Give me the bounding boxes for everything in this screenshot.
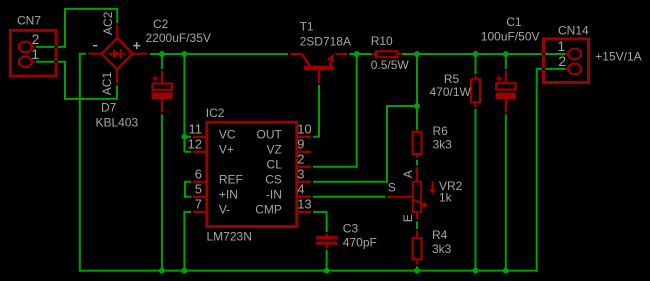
resistor R10 (372, 51, 401, 57)
svg-text:V+: V+ (219, 142, 234, 156)
svg-text:4: 4 (297, 182, 304, 197)
resistor R4 (413, 231, 422, 265)
junction V+ rail at C2 (159, 51, 165, 57)
svg-text:LM723N: LM723N (207, 230, 252, 244)
wire IC2 pin13 CMP to C3 (313, 212, 327, 232)
svg-text:6: 6 (195, 167, 202, 182)
svg-text:AC1: AC1 (100, 72, 114, 96)
transistor T1 (290, 54, 347, 83)
junction CS node at R6 (414, 103, 420, 109)
IC IC2 LM723N box (207, 122, 297, 226)
svg-text:R10: R10 (371, 34, 393, 48)
svg-text:CMP: CMP (255, 203, 282, 217)
junction V+ rail at IC2 supply (181, 51, 187, 57)
svg-text:3: 3 (297, 167, 304, 182)
svg-text:VZ: VZ (267, 142, 282, 156)
potentiometer VR2 (387, 167, 436, 219)
svg-text:13: 13 (297, 197, 311, 212)
connector CN7 (10, 30, 56, 76)
wire V+ to IC2 pins 11 and 12 (184, 54, 191, 152)
svg-text:C3: C3 (343, 221, 359, 235)
junction GND rail at C2 (159, 268, 165, 274)
wire V+ rail: R10 to CN14.1 (402, 53, 565, 55)
svg-text:C2: C2 (153, 17, 169, 31)
svg-text:IC2: IC2 (206, 106, 225, 120)
junction V+ rail at R5 (473, 51, 479, 57)
svg-text:A: A (401, 170, 415, 178)
pin 12 V+ (193, 151, 207, 153)
svg-text:+IN: +IN (219, 187, 238, 201)
capacitor C2 (152, 71, 173, 113)
wire AC2 net CN7.2 to bridge AC2 (36, 9, 117, 47)
pin 4 -IN (297, 196, 311, 198)
svg-text:REF: REF (219, 172, 243, 186)
svg-text:2: 2 (32, 31, 40, 47)
svg-text:-IN: -IN (266, 187, 282, 201)
wire R4 bottom lead to GND rail (416, 266, 418, 270)
svg-text:1k: 1k (439, 191, 453, 205)
wire AC1 net CN7.1 to bridge AC1 (36, 62, 117, 99)
junction GND rail at IC2 V- (181, 268, 187, 274)
svg-text:CN7: CN7 (17, 14, 41, 28)
wire V+ rail: T1 emitter to R10 (349, 53, 371, 55)
svg-text:E: E (401, 214, 415, 222)
pin 3 CS (297, 181, 311, 183)
resistor R6 (413, 130, 422, 158)
black overlap CN7 edge pin1 wire (55, 61, 58, 63)
svg-text:R6: R6 (433, 124, 449, 138)
svg-text:12: 12 (188, 137, 202, 152)
wire IC2 pin2 CL to T1 emitter node (313, 55, 357, 167)
wire V+ rail: bridge plus to T1 collector (150, 53, 288, 55)
svg-text:3k3: 3k3 (432, 242, 452, 256)
black overlap CN7 edge pin2 wire (55, 46, 58, 48)
wire C1 bottom lead to GND rail (505, 114, 507, 270)
wire IC2 pin7 V- to GND rail (184, 212, 191, 271)
svg-text:OUT: OUT (257, 127, 283, 141)
wire R6 top lead from V+ rail (416, 54, 418, 130)
wire C1 top lead (505, 54, 507, 69)
svg-text:1: 1 (557, 38, 565, 54)
junction GND rail at R4 (414, 268, 420, 274)
wire VR2 E to R4 (416, 221, 418, 229)
svg-text:2: 2 (297, 152, 304, 167)
svg-text:R4: R4 (432, 228, 448, 242)
junction at IC2 pin 11 (181, 134, 187, 140)
svg-text:1: 1 (31, 46, 39, 62)
junction V+ rail at R6 (414, 51, 420, 57)
svg-text:2: 2 (558, 53, 566, 69)
svg-text:T1: T1 (300, 19, 314, 33)
black overlap CN14 edge rail wire (542, 53, 545, 55)
svg-text:CS: CS (265, 172, 282, 186)
wire R5 top lead (475, 54, 477, 74)
svg-text:CL: CL (267, 157, 283, 171)
wire C2 bottom lead to GND rail (161, 114, 163, 270)
svg-text:AC2: AC2 (101, 11, 115, 35)
capacitor C1 (496, 71, 516, 113)
wire IC2 pin10 OUT to T1 base (313, 85, 319, 137)
svg-text:2SD718A: 2SD718A (300, 35, 351, 49)
svg-text:KBL403: KBL403 (96, 116, 139, 130)
svg-text:3k3: 3k3 (433, 138, 453, 152)
svg-text:10: 10 (297, 122, 311, 137)
junction GND rail at R5 (473, 268, 479, 274)
wire IC2 pin3 CS to R10 right node (313, 106, 416, 182)
svg-text:470/1W: 470/1W (430, 85, 472, 99)
pin 13 CMP (297, 211, 311, 213)
bridge rectifier D7 (88, 25, 147, 84)
pin 9 VZ (297, 151, 311, 153)
capacitor C3 (316, 234, 338, 249)
black overlap CN14 edge pin2 wire (542, 68, 545, 70)
wire R6 to VR2 A (416, 160, 418, 166)
svg-text:2200uF/35V: 2200uF/35V (146, 31, 211, 45)
svg-text:C1: C1 (506, 15, 522, 29)
pin 11 VC (193, 136, 207, 138)
junction V+ rail at T1 emitter (354, 51, 360, 57)
junction GND rail at C1 (503, 268, 509, 274)
label minus (93, 45, 98, 47)
svg-text:CN14: CN14 (558, 24, 589, 38)
svg-text:0.5/5W: 0.5/5W (371, 58, 410, 72)
pin 6 REF (193, 181, 207, 183)
wire GND net: bridge minus, bottom rail, up to CN14.2 (80, 54, 566, 271)
wire R5 bottom lead to GND rail (475, 109, 477, 271)
svg-text:100uF/50V: 100uF/50V (481, 30, 540, 44)
svg-text:9: 9 (297, 137, 304, 152)
resistor R5 (471, 76, 480, 107)
svg-text:5: 5 (195, 182, 202, 197)
wire IC2 pin6 REF to pin5 +IN (185, 182, 191, 197)
svg-text:7: 7 (195, 197, 202, 212)
svg-text:VC: VC (219, 127, 236, 141)
svg-text:D7: D7 (101, 101, 117, 115)
svg-text:+15V/1A: +15V/1A (595, 50, 641, 64)
pin 10 OUT (297, 136, 311, 138)
wire IC2 pin4 -IN to VR2 wiper (313, 196, 385, 198)
svg-text:S: S (388, 181, 396, 195)
wire C2 top lead (161, 54, 163, 69)
svg-text:V-: V- (219, 203, 230, 217)
connector CN14 (544, 39, 589, 83)
pin 7 V- (193, 211, 207, 213)
junction V+ rail at C1 (503, 51, 509, 57)
label plus (133, 42, 140, 49)
svg-text:11: 11 (189, 122, 203, 137)
pin 2 CL (297, 166, 311, 168)
junction GND rail at C3 (324, 268, 330, 274)
wire C3 bottom lead to GND rail (326, 250, 328, 271)
pin 5 +IN (193, 196, 207, 198)
svg-text:470pF: 470pF (343, 235, 377, 249)
